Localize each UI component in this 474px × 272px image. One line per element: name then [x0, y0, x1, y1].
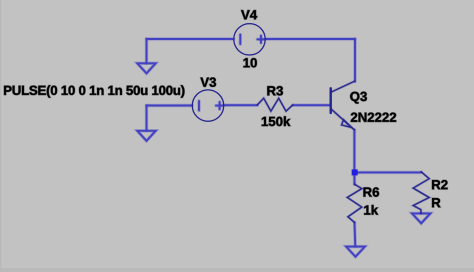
wire halo pass — [137, 35, 430, 257]
symbol halo pass — [192, 24, 429, 223]
node (emitter junction) — [351, 169, 358, 176]
text halo pass — [4, 10, 447, 214]
wire core pass — [137, 35, 430, 257]
symbol core pass — [192, 24, 429, 223]
text core pass — [4, 10, 447, 214]
